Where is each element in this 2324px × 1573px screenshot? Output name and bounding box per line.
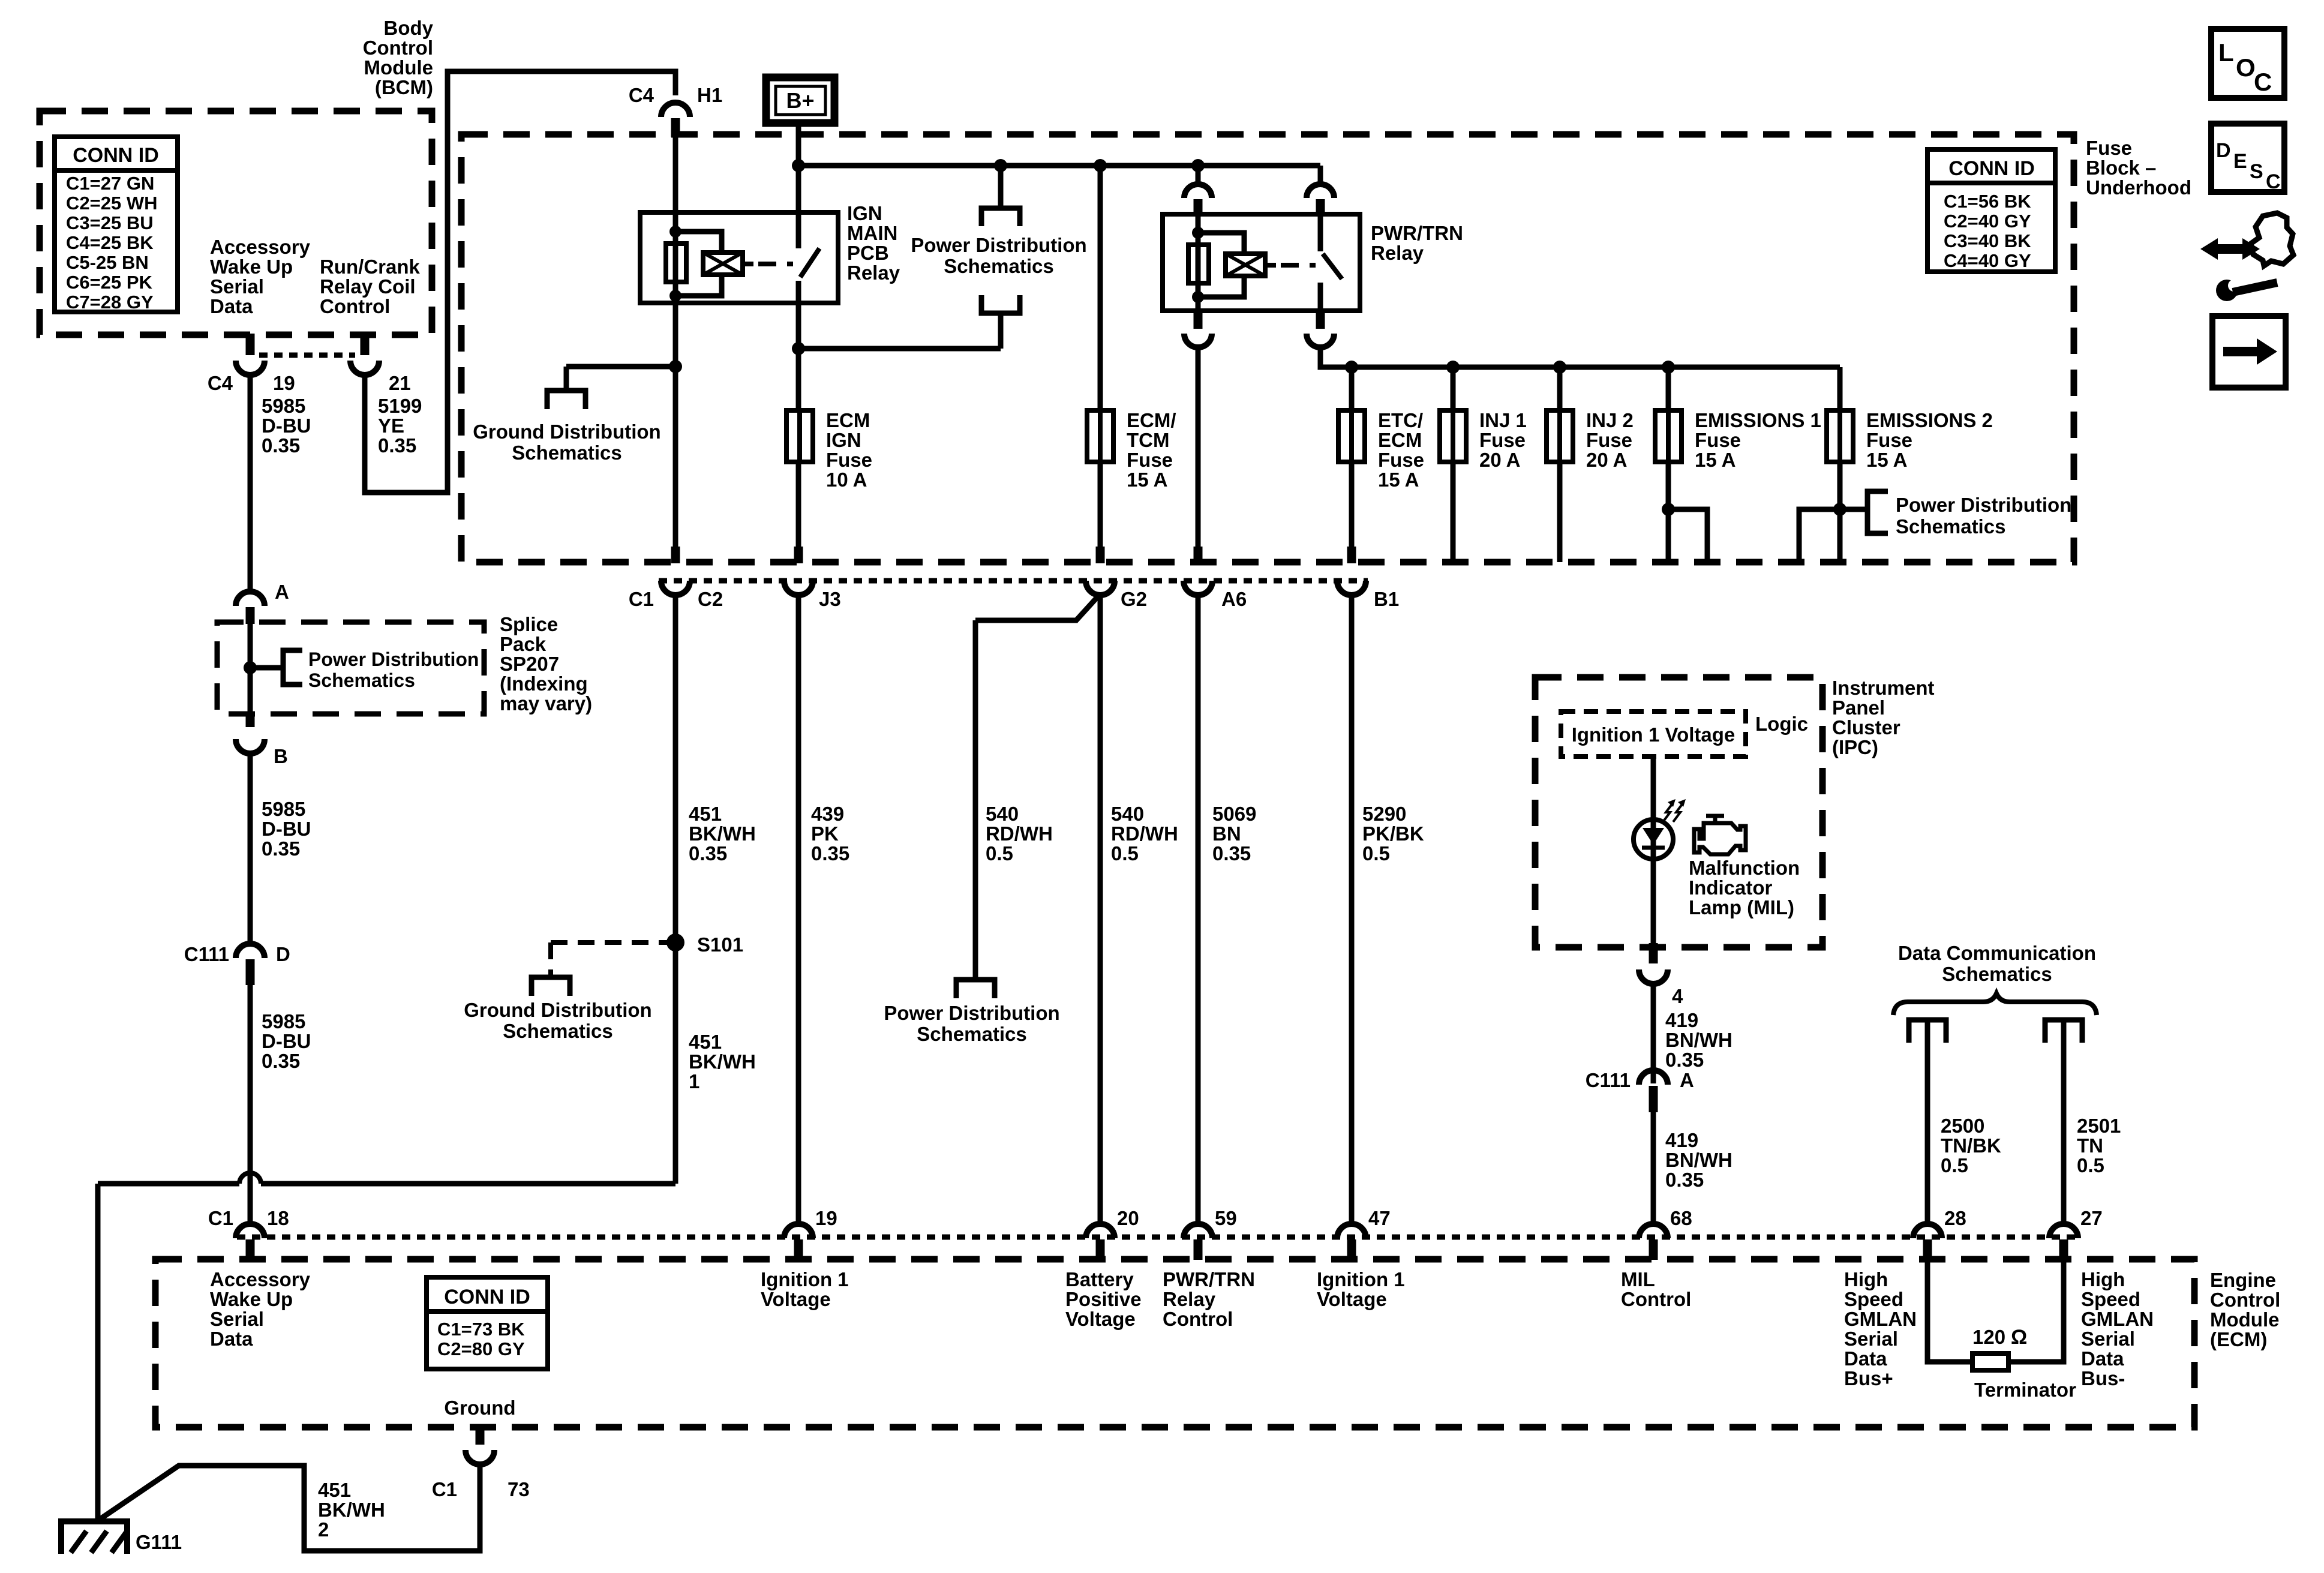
svg-text:Data: Data: [2081, 1347, 2124, 1370]
svg-text:B+: B+: [786, 88, 814, 113]
svg-text:2: 2: [318, 1518, 329, 1541]
svg-text:19: 19: [273, 372, 295, 394]
svg-text:451: 451: [689, 1031, 722, 1053]
svg-text:Instrument: Instrument: [1832, 677, 1935, 699]
svg-text:Ignition 1: Ignition 1: [761, 1268, 849, 1290]
svg-text:28: 28: [1944, 1207, 1966, 1229]
svg-text:Block –: Block –: [2086, 157, 2156, 179]
svg-text:CONN ID: CONN ID: [444, 1286, 530, 1308]
svg-text:Schematics: Schematics: [503, 1020, 612, 1042]
svg-text:Serial: Serial: [210, 1308, 264, 1330]
svg-text:C4: C4: [629, 84, 654, 106]
svg-text:5290: 5290: [1362, 803, 1406, 825]
svg-text:BN: BN: [1212, 822, 1241, 845]
svg-text:D-BU: D-BU: [262, 818, 311, 840]
svg-text:Malfunction: Malfunction: [1689, 857, 1800, 879]
svg-text:PWR/TRN: PWR/TRN: [1371, 222, 1463, 244]
svg-text:High: High: [2081, 1268, 2125, 1290]
svg-text:YE: YE: [378, 415, 404, 437]
svg-text:Logic: Logic: [1755, 713, 1808, 735]
svg-text:C7=28 GY: C7=28 GY: [66, 292, 154, 313]
svg-text:Lamp (MIL): Lamp (MIL): [1689, 896, 1794, 918]
svg-text:A: A: [1680, 1069, 1694, 1091]
svg-text:0.5: 0.5: [1362, 842, 1390, 864]
svg-text:C2=80 GY: C2=80 GY: [437, 1338, 525, 1359]
svg-text:TN: TN: [2077, 1134, 2103, 1157]
svg-text:Schematics: Schematics: [917, 1023, 1026, 1045]
svg-text:0.35: 0.35: [1212, 842, 1251, 864]
svg-text:0.35: 0.35: [1665, 1169, 1704, 1191]
svg-text:Splice: Splice: [500, 613, 558, 635]
svg-text:C1=73 BK: C1=73 BK: [437, 1319, 525, 1340]
svg-text:Voltage: Voltage: [761, 1288, 831, 1310]
svg-text:Control: Control: [1163, 1308, 1233, 1330]
svg-text:ECM: ECM: [826, 409, 870, 431]
svg-text:C3=40 BK: C3=40 BK: [1944, 230, 2031, 251]
svg-text:Bus+: Bus+: [1844, 1367, 1893, 1389]
svg-text:0.35: 0.35: [1665, 1049, 1704, 1071]
svg-text:C2: C2: [698, 588, 723, 610]
svg-text:Schematics: Schematics: [308, 670, 415, 691]
svg-text:540: 540: [986, 803, 1019, 825]
svg-text:C2=40 GY: C2=40 GY: [1944, 211, 2031, 232]
svg-text:BN/WH: BN/WH: [1665, 1029, 1733, 1051]
svg-text:Accessory: Accessory: [210, 236, 311, 258]
svg-text:Voltage: Voltage: [1065, 1308, 1136, 1330]
svg-text:C111: C111: [1586, 1069, 1631, 1091]
svg-text:B: B: [274, 745, 288, 767]
svg-text:Data: Data: [210, 1328, 253, 1350]
svg-text:Accessory: Accessory: [210, 1268, 311, 1290]
svg-text:5985: 5985: [262, 395, 305, 417]
svg-text:Panel: Panel: [1832, 697, 1885, 719]
svg-text:ECM: ECM: [1378, 429, 1422, 451]
svg-text:(IPC): (IPC): [1832, 736, 1878, 758]
svg-text:D-BU: D-BU: [262, 1030, 311, 1052]
svg-text:5199: 5199: [378, 395, 422, 417]
svg-text:Ground: Ground: [444, 1397, 515, 1419]
svg-text:15 A: 15 A: [1378, 469, 1419, 491]
svg-text:Power Distribution: Power Distribution: [308, 649, 479, 670]
svg-text:Battery: Battery: [1065, 1268, 1134, 1290]
svg-text:Engine: Engine: [2210, 1269, 2276, 1291]
svg-text:Control: Control: [2210, 1289, 2280, 1311]
svg-text:J3: J3: [819, 588, 841, 610]
svg-text:G2: G2: [1121, 588, 1147, 610]
svg-text:Control: Control: [320, 295, 390, 317]
svg-text:0.35: 0.35: [262, 1050, 300, 1072]
svg-text:Control: Control: [1621, 1288, 1691, 1310]
svg-text:Fuse: Fuse: [1127, 449, 1173, 471]
svg-text:Ignition 1: Ignition 1: [1317, 1268, 1405, 1290]
svg-text:Module: Module: [2210, 1308, 2279, 1331]
svg-text:4: 4: [1672, 985, 1683, 1007]
svg-text:Schematics: Schematics: [1942, 963, 2052, 985]
svg-text:Data: Data: [1844, 1347, 1887, 1370]
svg-text:(BCM): (BCM): [375, 76, 433, 98]
svg-text:RD/WH: RD/WH: [986, 822, 1053, 845]
svg-text:Relay: Relay: [1371, 242, 1424, 264]
svg-text:C6=25 PK: C6=25 PK: [66, 272, 153, 293]
svg-text:Body: Body: [384, 17, 434, 39]
svg-text:0.5: 0.5: [1941, 1154, 1968, 1176]
svg-text:Relay Coil: Relay Coil: [320, 275, 416, 298]
svg-text:IGN: IGN: [847, 202, 882, 224]
svg-text:Ground Distribution: Ground Distribution: [473, 421, 660, 443]
svg-text:B1: B1: [1374, 588, 1399, 610]
svg-text:0.5: 0.5: [1111, 842, 1139, 864]
svg-text:INJ 1: INJ 1: [1479, 409, 1527, 431]
svg-text:Fuse: Fuse: [1866, 429, 1912, 451]
svg-text:BK/WH: BK/WH: [689, 822, 756, 845]
svg-text:0.35: 0.35: [378, 434, 416, 457]
svg-text:Schematics: Schematics: [1896, 515, 2005, 538]
svg-text:Ignition 1 Voltage: Ignition 1 Voltage: [1572, 724, 1736, 746]
svg-text:439: 439: [811, 803, 844, 825]
svg-text:E: E: [2233, 150, 2247, 173]
svg-text:20: 20: [1117, 1207, 1139, 1229]
svg-text:ECM/: ECM/: [1127, 409, 1176, 431]
svg-text:BK/WH: BK/WH: [318, 1499, 385, 1521]
svg-text:Control: Control: [363, 37, 433, 59]
svg-text:5069: 5069: [1212, 803, 1256, 825]
svg-text:Wake Up: Wake Up: [210, 1288, 293, 1310]
svg-text:D: D: [276, 943, 290, 965]
svg-text:H1: H1: [697, 84, 722, 106]
svg-text:L: L: [2218, 38, 2234, 67]
svg-text:D-BU: D-BU: [262, 415, 311, 437]
svg-text:451: 451: [689, 803, 722, 825]
svg-text:Bus-: Bus-: [2081, 1367, 2125, 1389]
svg-text:2500: 2500: [1941, 1115, 1984, 1137]
svg-text:MIL: MIL: [1621, 1268, 1655, 1290]
svg-text:15 A: 15 A: [1866, 449, 1907, 471]
svg-text:A6: A6: [1221, 588, 1247, 610]
svg-text:IGN: IGN: [826, 429, 861, 451]
svg-text:15 A: 15 A: [1695, 449, 1736, 471]
svg-text:INJ 2: INJ 2: [1586, 409, 1634, 431]
svg-text:S: S: [2250, 160, 2263, 183]
svg-text:27: 27: [2080, 1207, 2103, 1229]
svg-text:Ground Distribution: Ground Distribution: [464, 999, 651, 1021]
svg-text:C1=56 BK: C1=56 BK: [1944, 191, 2031, 212]
svg-text:Ω: Ω: [2011, 1326, 2027, 1349]
svg-text:PK/BK: PK/BK: [1362, 822, 1424, 845]
svg-text:C1: C1: [208, 1207, 233, 1229]
svg-text:MAIN: MAIN: [847, 222, 897, 244]
svg-text:Relay: Relay: [1163, 1288, 1216, 1310]
svg-text:C4=40 GY: C4=40 GY: [1944, 250, 2031, 271]
svg-text:0.35: 0.35: [811, 842, 849, 864]
svg-text:BN/WH: BN/WH: [1665, 1149, 1733, 1171]
svg-text:540: 540: [1111, 803, 1144, 825]
svg-text:68: 68: [1670, 1207, 1692, 1229]
svg-text:High: High: [1844, 1268, 1888, 1290]
svg-text:CONN ID: CONN ID: [73, 144, 159, 167]
svg-text:Power Distribution: Power Distribution: [1896, 494, 2071, 516]
svg-text:BK/WH: BK/WH: [689, 1050, 756, 1073]
svg-text:5985: 5985: [262, 798, 305, 820]
svg-text:Power Distribution: Power Distribution: [884, 1002, 1059, 1024]
svg-text:Serial: Serial: [2081, 1328, 2135, 1350]
svg-text:C4=25 BK: C4=25 BK: [66, 232, 154, 253]
svg-text:G111: G111: [136, 1531, 182, 1553]
svg-text:120: 120: [1972, 1326, 2005, 1348]
svg-text:Serial: Serial: [210, 275, 264, 298]
svg-text:0.5: 0.5: [2077, 1154, 2104, 1176]
svg-text:1: 1: [689, 1070, 699, 1092]
svg-text:Serial: Serial: [1844, 1328, 1898, 1350]
svg-text:20 A: 20 A: [1479, 449, 1520, 471]
svg-text:47: 47: [1368, 1207, 1391, 1229]
svg-text:S101: S101: [697, 933, 743, 956]
svg-text:Module: Module: [364, 56, 433, 79]
svg-text:O: O: [2236, 53, 2256, 82]
svg-text:CONN ID: CONN ID: [1948, 157, 2035, 180]
svg-text:(ECM): (ECM): [2210, 1328, 2267, 1350]
svg-text:Wake Up: Wake Up: [210, 256, 293, 278]
svg-text:Run/Crank: Run/Crank: [320, 256, 421, 278]
svg-text:Fuse: Fuse: [2086, 137, 2132, 159]
svg-text:C111: C111: [184, 943, 229, 965]
svg-text:C1=27 GN: C1=27 GN: [66, 173, 154, 194]
svg-text:Fuse: Fuse: [1695, 429, 1741, 451]
svg-text:C: C: [2254, 68, 2272, 96]
svg-text:Positive: Positive: [1065, 1288, 1142, 1310]
svg-text:Fuse: Fuse: [1378, 449, 1424, 471]
svg-text:C3=25 BU: C3=25 BU: [66, 212, 154, 233]
svg-text:Schematics: Schematics: [944, 255, 1053, 277]
svg-text:Pack: Pack: [500, 633, 547, 655]
svg-text:D: D: [2216, 139, 2231, 162]
svg-text:Speed: Speed: [2081, 1288, 2140, 1310]
svg-text:C1: C1: [432, 1478, 457, 1500]
svg-text:Data: Data: [210, 295, 253, 317]
svg-text:0.5: 0.5: [986, 842, 1013, 864]
svg-text:Data Communication: Data Communication: [1898, 942, 2096, 964]
svg-text:2501: 2501: [2077, 1115, 2121, 1137]
svg-text:15 A: 15 A: [1127, 469, 1167, 491]
svg-text:419: 419: [1665, 1009, 1698, 1031]
svg-text:451: 451: [318, 1479, 351, 1501]
svg-text:0.35: 0.35: [689, 842, 727, 864]
svg-text:419: 419: [1665, 1129, 1698, 1151]
svg-text:Underhood: Underhood: [2086, 176, 2191, 199]
svg-text:Voltage: Voltage: [1317, 1288, 1387, 1310]
svg-text:C: C: [2266, 170, 2281, 193]
svg-text:Terminator: Terminator: [1974, 1379, 2076, 1401]
svg-text:PK: PK: [811, 822, 839, 845]
svg-text:20 A: 20 A: [1586, 449, 1627, 471]
svg-text:5985: 5985: [262, 1010, 305, 1032]
svg-text:GMLAN: GMLAN: [1844, 1308, 1917, 1330]
svg-text:(Indexing: (Indexing: [500, 673, 588, 695]
svg-text:Relay: Relay: [847, 262, 900, 284]
svg-text:ETC/: ETC/: [1378, 409, 1423, 431]
svg-text:may vary): may vary): [500, 692, 592, 715]
svg-text:C1: C1: [629, 588, 654, 610]
svg-text:Schematics: Schematics: [512, 442, 621, 464]
svg-text:Power Distribution: Power Distribution: [911, 234, 1086, 256]
svg-text:73: 73: [508, 1478, 530, 1500]
svg-text:RD/WH: RD/WH: [1111, 822, 1178, 845]
svg-text:Fuse: Fuse: [826, 449, 872, 471]
svg-text:0.35: 0.35: [262, 837, 300, 860]
svg-text:Fuse: Fuse: [1586, 429, 1632, 451]
svg-text:19: 19: [815, 1207, 837, 1229]
svg-text:10 A: 10 A: [826, 469, 867, 491]
svg-text:PWR/TRN: PWR/TRN: [1163, 1268, 1255, 1290]
svg-text:PCB: PCB: [847, 242, 889, 264]
svg-text:21: 21: [389, 372, 411, 394]
svg-text:TCM: TCM: [1127, 429, 1169, 451]
svg-text:SP207: SP207: [500, 653, 559, 675]
svg-text:GMLAN: GMLAN: [2081, 1308, 2154, 1330]
svg-text:18: 18: [267, 1207, 289, 1229]
svg-text:EMISSIONS 2: EMISSIONS 2: [1866, 409, 1993, 431]
svg-text:Fuse: Fuse: [1479, 429, 1526, 451]
svg-text:0.35: 0.35: [262, 434, 300, 457]
svg-text:Cluster: Cluster: [1832, 716, 1900, 739]
svg-text:C2=25 WH: C2=25 WH: [66, 193, 157, 214]
svg-text:Speed: Speed: [1844, 1288, 1903, 1310]
svg-text:EMISSIONS 1: EMISSIONS 1: [1695, 409, 1821, 431]
svg-text:TN/BK: TN/BK: [1941, 1134, 2001, 1157]
svg-text:A: A: [275, 581, 289, 603]
svg-text:Indicator: Indicator: [1689, 876, 1773, 899]
svg-text:C4: C4: [208, 372, 233, 394]
svg-text:59: 59: [1215, 1207, 1237, 1229]
svg-text:C5-25 BN: C5-25 BN: [66, 252, 149, 273]
